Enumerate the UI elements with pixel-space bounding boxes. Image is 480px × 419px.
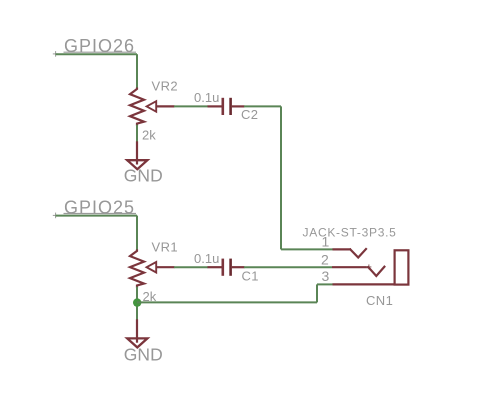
connector CN1 pin 1 lead	[333, 248, 352, 250]
ground lead (bottom GND)	[136, 319, 138, 342]
svg-text:JACK-ST-3P3.5: JACK-ST-3P3.5	[303, 225, 397, 239]
svg-text:0.1u: 0.1u	[194, 90, 219, 105]
capacitor C1 right lead	[232, 266, 245, 268]
svg-text:C1: C1	[242, 268, 259, 283]
wire vertical down to jack pin 1 row	[280, 106, 282, 249]
wire C1 to jack pin 2	[244, 266, 332, 268]
wire GPIO26 vertical down to VR2	[136, 54, 138, 88]
svg-text:GND: GND	[124, 345, 163, 365]
capacitor C1 right plate	[229, 259, 232, 276]
potentiometer VR2 wiper arrow	[147, 101, 157, 112]
svg-text:GPIO26: GPIO26	[64, 36, 135, 56]
wire VR1 bottom to junction	[136, 287, 138, 320]
wire junction to pin 3 riser	[137, 301, 317, 303]
capacitor C2 right lead	[232, 105, 245, 107]
capacitor C2 left plate	[222, 98, 225, 115]
potentiometer VR1 wiper lead	[156, 266, 175, 268]
wire GPIO26 horizontal	[56, 53, 138, 55]
wire VR2 bottom to GND lead	[136, 125, 138, 142]
potentiometer VR1 zigzag body	[130, 249, 144, 287]
potentiometer VR2 zigzag body	[130, 88, 144, 126]
capacitor C1 left plate	[222, 259, 225, 276]
node GPIO26 label	[64, 36, 137, 56]
wire GPIO25 horizontal	[56, 215, 138, 217]
wire GPIO25 vertical down to VR1	[136, 216, 138, 250]
wire pin 3 riser vertical	[316, 284, 318, 302]
svg-text:CN1: CN1	[366, 293, 393, 308]
capacitor C2 left lead	[208, 105, 222, 107]
svg-text:3: 3	[322, 268, 330, 284]
svg-text:VR1: VR1	[152, 239, 179, 254]
ground lead (top GND)	[136, 141, 138, 164]
svg-text:1: 1	[322, 234, 330, 250]
svg-text:GND: GND	[124, 166, 163, 186]
wire VR2 wiper to C2	[174, 105, 208, 107]
wire horizontal to jack pin 1	[281, 248, 333, 250]
junction dot	[133, 298, 141, 306]
connector CN1 ring contact (pin 2)	[368, 267, 384, 276]
connector CN1 sleeve rectangle	[395, 250, 409, 284]
net stub marker GPIO26	[53, 51, 59, 57]
svg-text:C2: C2	[241, 107, 258, 122]
capacitor C1 left lead	[208, 266, 222, 268]
svg-text:2k: 2k	[142, 128, 156, 143]
capacitor C2 right plate	[229, 98, 232, 115]
connector CN1 pin 3 lead	[333, 283, 396, 285]
svg-text:VR2: VR2	[152, 79, 179, 94]
wire C2 to corner	[244, 105, 281, 107]
svg-text:GPIO25: GPIO25	[64, 197, 135, 217]
potentiometer VR2 wiper lead	[156, 105, 175, 107]
wire VR1 wiper to C1	[174, 266, 208, 268]
wire to jack pin 3	[317, 283, 333, 285]
ground symbol (bottom GND)	[127, 338, 147, 347]
connector CN1 pivot cross (pin 2)	[366, 264, 371, 269]
svg-text:0.1u: 0.1u	[194, 251, 219, 266]
connector CN1 pin 2 lead	[332, 266, 369, 268]
svg-text:2: 2	[321, 251, 329, 267]
connector CN1 tip contact (pin 1)	[350, 249, 366, 258]
ground symbol (top GND)	[127, 160, 147, 169]
potentiometer VR1 wiper arrow	[147, 262, 157, 273]
node GPIO25 label	[64, 197, 137, 217]
net stub marker GPIO25	[53, 213, 59, 219]
